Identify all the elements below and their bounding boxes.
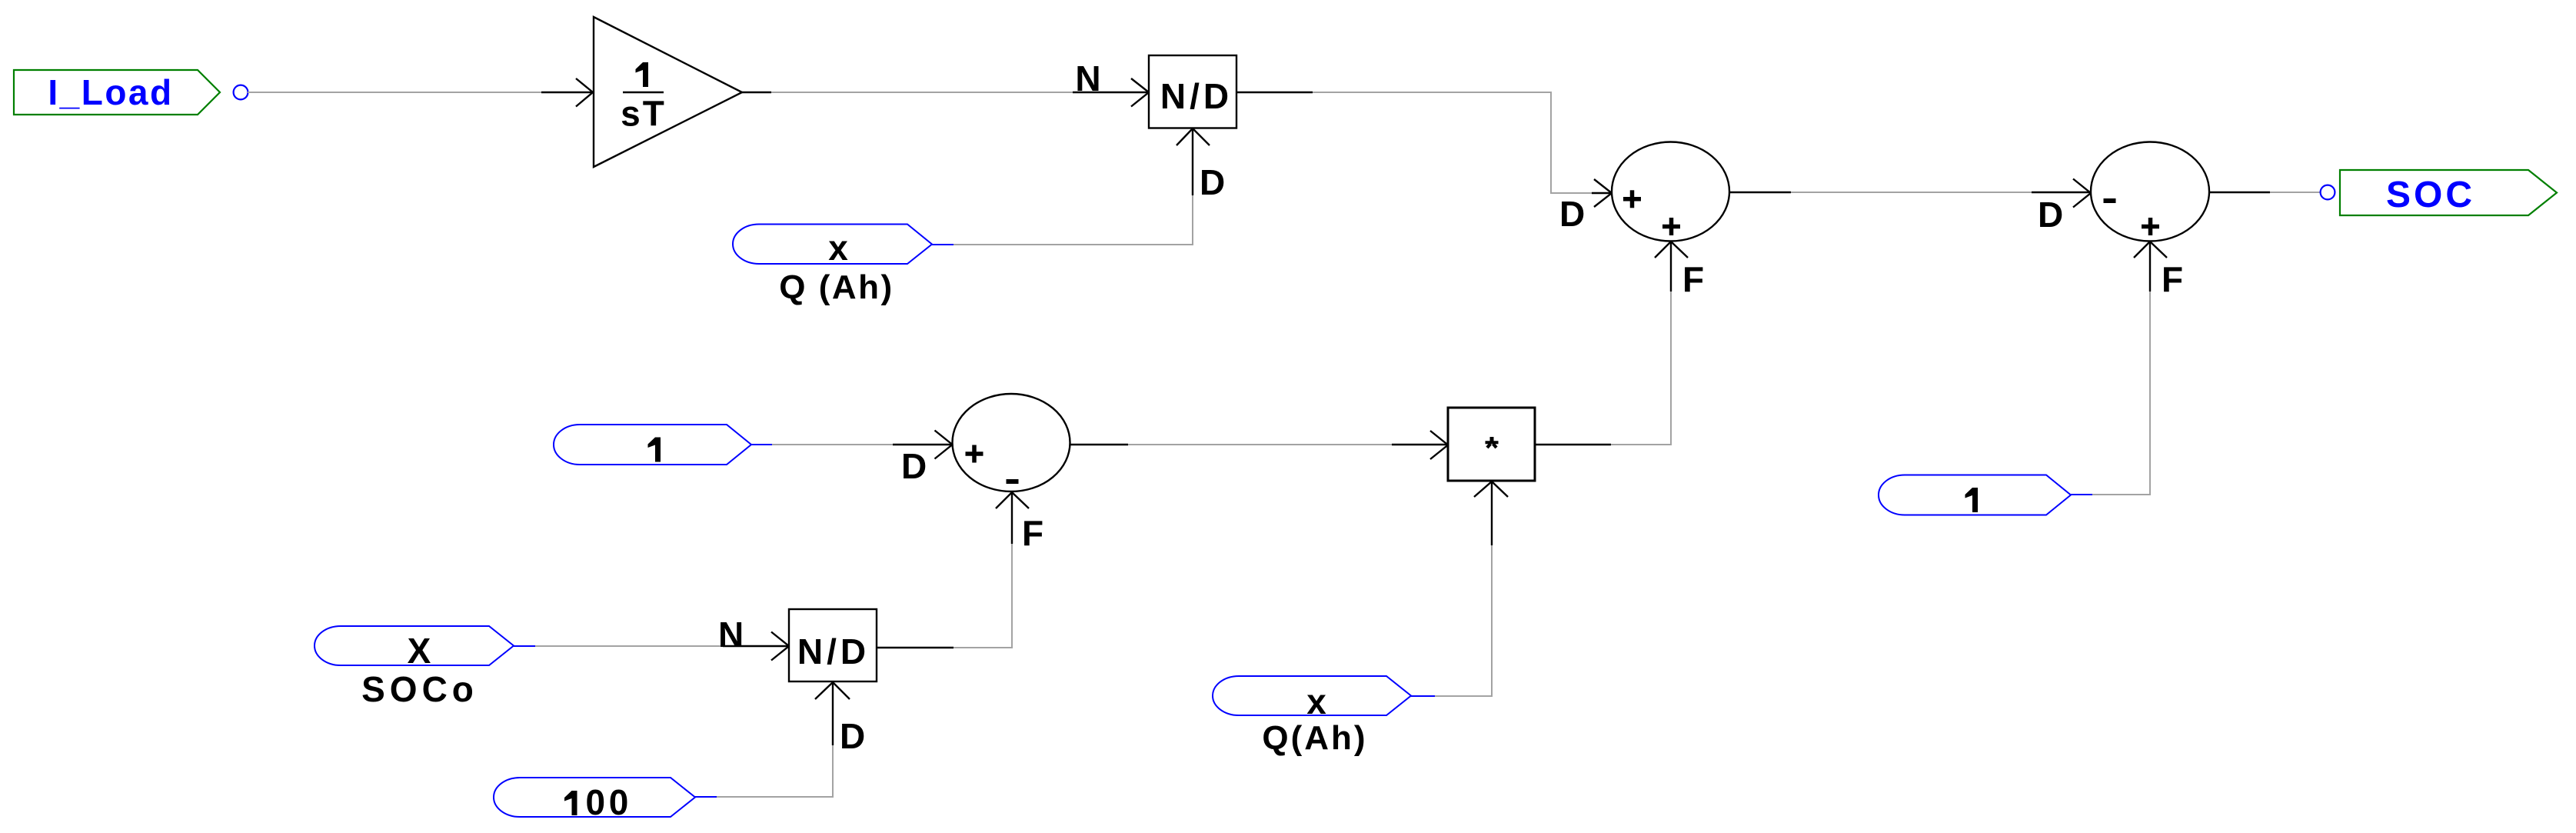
wire gray to SOC node xyxy=(2270,192,2321,193)
wire gray summer S3 to multiplier xyxy=(1128,444,1393,445)
svg-text:I_Load: I_Load xyxy=(48,72,173,112)
data label capsule 1 (middle left) xyxy=(554,425,751,465)
arrowhead into summer S1 D input xyxy=(1594,179,1612,207)
svg-text:N/D: N/D xyxy=(1160,76,1233,116)
wire black stub below summer S1 xyxy=(1670,242,1672,292)
plus sign bottom in summer S2 xyxy=(2142,218,2159,235)
blue stub at capsule x Q(Ah) tip xyxy=(932,244,954,245)
arrowhead into summer S1 F input xyxy=(1655,242,1688,258)
svg-text:x: x xyxy=(1306,681,1326,721)
data label capsule 100 xyxy=(494,778,695,822)
wire black stub into divider U2 xyxy=(723,645,788,647)
wire divider U2 output black stub xyxy=(877,647,954,648)
wire gray summer S1 to summer S2 xyxy=(1791,192,2032,193)
blue stub at capsule 1 middle tip xyxy=(751,444,772,445)
arrowhead into divider U2 D input xyxy=(815,682,850,699)
summer S2 circle xyxy=(2091,142,2209,242)
integrator 1/sT triangle xyxy=(594,17,742,167)
wire integrator output xyxy=(742,92,771,93)
svg-text:x: x xyxy=(828,228,848,268)
minus sign bottom in summer S3 xyxy=(1007,479,1019,484)
arrowhead into divider U1 D input xyxy=(1177,128,1210,145)
svg-text:D: D xyxy=(1200,162,1225,202)
wire black stub below divider U2 xyxy=(832,682,834,745)
wire gray from capsule 100 to divider U2 xyxy=(717,745,833,797)
wire black stub below divider U1 xyxy=(1192,128,1193,195)
svg-text:Q (Ah): Q (Ah) xyxy=(779,268,894,306)
blue stub at capsule 100 tip xyxy=(695,796,717,798)
wire summer S3 output black stub xyxy=(1070,444,1128,445)
svg-text:D: D xyxy=(901,446,927,486)
wire gray divider U1 to summer S1 xyxy=(1313,92,1593,193)
svg-text:00: 00 xyxy=(586,782,633,822)
svg-text:N: N xyxy=(1075,58,1100,98)
svg-text:SOC: SOC xyxy=(2386,175,2475,215)
wire black stub below summer S2 xyxy=(2149,242,2151,292)
node circle at I_Load output xyxy=(234,85,248,100)
arrowhead into divider U2 N input xyxy=(771,632,789,661)
wire black stub into summer S1 xyxy=(1592,192,1611,194)
wire gray capsule 1 to summer S3 xyxy=(772,444,894,445)
blue stub at capsule 1 tip xyxy=(2071,494,2092,495)
svg-text:D: D xyxy=(1559,194,1585,234)
minus sign in summer S2 xyxy=(2104,198,2116,203)
wire black stub below summer S3 xyxy=(1011,492,1013,544)
arrowhead into multiplier bottom input xyxy=(1474,481,1508,497)
node circle at SOC xyxy=(2321,185,2335,200)
svg-text:F: F xyxy=(2162,259,2183,299)
wire black stub into divider xyxy=(1073,92,1148,93)
svg-text:X: X xyxy=(408,631,431,671)
plus sign bottom in summer S1 xyxy=(1662,218,1680,235)
svg-text:N: N xyxy=(718,615,744,655)
wire black stub below multiplier xyxy=(1491,481,1493,545)
wire gray capsule X to divider U2 xyxy=(535,645,724,647)
arrowhead into summer S2 F input xyxy=(2134,242,2167,258)
wire multiplier output black stub xyxy=(1535,444,1611,445)
plus sign left in summer S3 xyxy=(966,445,983,463)
wire black stub into summer S2 xyxy=(2032,192,2090,193)
svg-text:Q(Ah): Q(Ah) xyxy=(1262,719,1367,757)
wire gray from divider U2 output corner up to summer S3 xyxy=(954,544,1012,648)
wire summer S1 output black stub xyxy=(1729,192,1791,193)
divider N/D U2 xyxy=(789,609,877,681)
divider N/D U1 xyxy=(1149,55,1236,128)
summer S1 circle xyxy=(1612,142,1729,242)
blue stub at capsule x Q(Ah) bottom tip xyxy=(1411,695,1435,697)
arrowhead into integrator xyxy=(576,78,593,107)
wire gray from capsule 1 up to summer S2 xyxy=(2092,292,2150,495)
data label capsule x / Q (Ah) xyxy=(733,225,932,307)
multiplier box xyxy=(1448,408,1535,481)
arrowhead into divider N input xyxy=(1131,78,1149,107)
wire gray from Q(Ah) capsule up to divider U1 xyxy=(954,195,1193,245)
arrowhead into summer S3 F input xyxy=(996,492,1029,508)
wire black stub into summer S3 xyxy=(893,444,951,445)
wire black stub into multiplier xyxy=(1392,444,1447,445)
arrowhead into summer S2 D input xyxy=(2073,179,2091,208)
wire gray from capsule x Q(Ah) to multiplier xyxy=(1435,545,1492,696)
blue stub at capsule X tip xyxy=(514,645,535,647)
wire divider U1 output black stub xyxy=(1236,92,1313,93)
data label capsule X / SOCo xyxy=(315,626,514,709)
arrowhead into multiplier left input xyxy=(1430,431,1448,459)
wire summer S2 output black stub xyxy=(2209,192,2270,193)
svg-text:SOCo: SOCo xyxy=(361,669,478,709)
svg-text:F: F xyxy=(1682,259,1704,299)
svg-text:D: D xyxy=(840,716,865,756)
data label capsule 1 (bottom right) xyxy=(1879,475,2071,515)
export tag SOC xyxy=(2340,170,2557,215)
wire black stub into integrator xyxy=(541,92,592,93)
export tag I_Load xyxy=(14,70,220,115)
svg-text:sT: sT xyxy=(621,94,667,134)
svg-text:D: D xyxy=(2038,195,2063,235)
wire gray from multiplier output corner up to summer S1 xyxy=(1611,292,1671,445)
svg-text:N/D: N/D xyxy=(797,631,870,671)
svg-text:F: F xyxy=(1022,513,1043,553)
data label capsule x / Q(Ah) bottom xyxy=(1213,676,1411,757)
wire gray to divider xyxy=(771,92,1073,93)
wire I_Load to integrator xyxy=(248,92,543,93)
plus sign left in summer S1 xyxy=(1623,190,1641,208)
summer S3 circle xyxy=(953,394,1070,491)
arrowhead into summer S3 D input xyxy=(935,431,953,459)
